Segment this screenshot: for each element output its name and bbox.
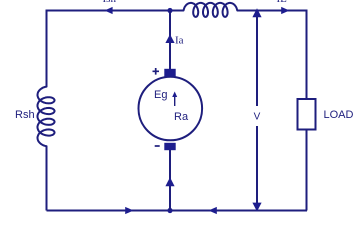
svg-text:Ish: Ish [103, 0, 117, 5]
inductor: series field coil (top) [184, 3, 238, 17]
svg-text:V: V [254, 111, 261, 122]
wire: armature top lead [169, 11, 171, 70]
wire: left vertical, upper segment [46, 10, 48, 87]
current arrow on bottom rail (pointing right, left of junction) [125, 207, 133, 214]
inductor Rsh: shunt field coil (left) [38, 87, 55, 147]
current arrow IL (pointing right on top wire) [281, 7, 289, 14]
svg-text:Rsh: Rsh [15, 109, 35, 121]
wire: armature bottom lead [169, 150, 171, 211]
emf arrow (inside armature, pointing up) [174, 95, 176, 106]
voltage arrow V: lower shaft with down arrowhead [256, 126, 258, 204]
current arrow Ia (pointing up on armature top lead) [165, 34, 174, 43]
wire: right vertical, upper segment (to load) [306, 10, 308, 100]
svg-text:IL: IL [277, 0, 288, 5]
label - (negative terminal) [155, 145, 160, 147]
junction: top node (armature tap) [167, 8, 172, 13]
svg-text:LOAD: LOAD [324, 109, 354, 121]
voltage arrow V: upper shaft with up arrowhead [256, 16, 258, 106]
current arrow Ish (pointing left on top wire) [105, 7, 113, 14]
load resistor (rectangle) [298, 99, 316, 130]
wire: bottom horizontal rail [47, 210, 308, 212]
generator armature (circle) [139, 77, 203, 141]
current arrow on bottom rail (pointing left, right of junction) [209, 207, 217, 214]
wire: left vertical, lower segment [46, 146, 48, 210]
svg-text:Eg: Eg [154, 89, 167, 101]
svg-text:Ia: Ia [175, 35, 184, 47]
current arrow on armature bottom lead (pointing up) [165, 177, 174, 186]
terminal: negative brush (filled square) [164, 143, 175, 150]
svg-text:Ra: Ra [174, 111, 189, 123]
wire: top horizontal, right segment (series field to node B) [237, 10, 306, 12]
junction: bottom node [167, 208, 172, 213]
terminal: positive brush (filled square) [164, 69, 175, 77]
wire: right vertical, lower segment (load to bottom rail) [306, 130, 308, 211]
wire: top horizontal, left segment (node A to series field) [47, 10, 184, 12]
label + (positive terminal) [153, 68, 160, 75]
